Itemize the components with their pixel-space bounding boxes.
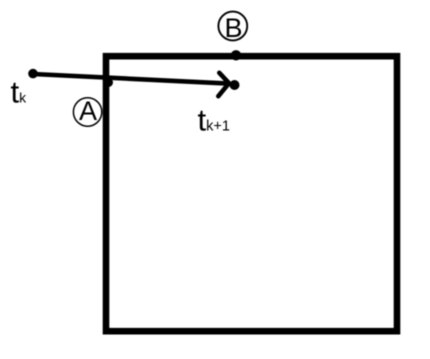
svg-text:A: A — [79, 96, 97, 126]
svg-text:B: B — [224, 13, 242, 43]
